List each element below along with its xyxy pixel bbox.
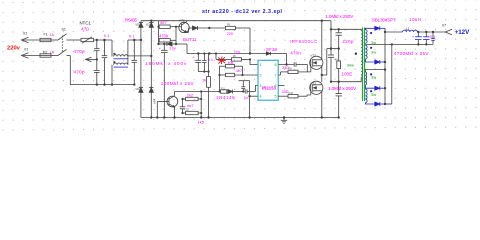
capacitor 4700Mkf second bbox=[420, 32, 429, 44]
svg-text:100E: 100E bbox=[342, 72, 353, 77]
diode SF28 bbox=[266, 47, 287, 64]
svg-text:3: 3 bbox=[260, 84, 262, 88]
node bbox=[330, 47, 332, 49]
node bbox=[163, 116, 165, 118]
svg-text:0.1: 0.1 bbox=[104, 33, 110, 38]
svg-text:0.1: 0.1 bbox=[129, 33, 135, 38]
bridge diode VD3 bbox=[135, 40, 143, 118]
node bbox=[215, 52, 217, 54]
resistor 1k vertical bbox=[202, 54, 210, 118]
svg-text:F1: F1 bbox=[44, 32, 48, 36]
capacitor 100Mkf x 25V bbox=[161, 54, 202, 87]
node bbox=[338, 47, 340, 49]
capacitor 470p lower bbox=[74, 59, 100, 84]
connector X1 top arrow bbox=[22, 37, 29, 43]
svg-text:IRF840GLC: IRF840GLC bbox=[290, 39, 317, 44]
node bbox=[207, 71, 209, 73]
connector X1 bottom arrow bbox=[22, 53, 29, 59]
capacitor 470n bootstrap bbox=[278, 51, 307, 86]
node bbox=[283, 116, 285, 118]
connector X7 bbox=[441, 24, 452, 35]
svg-text:5: 5 bbox=[275, 95, 277, 99]
wire VS jog bbox=[322, 49, 327, 75]
fuse F2 bbox=[40, 50, 58, 57]
wire bbox=[22, 39, 41, 41]
transistor VT4 protection bbox=[157, 92, 178, 118]
svg-text:R11: R11 bbox=[221, 87, 226, 90]
node bbox=[150, 116, 152, 118]
node bbox=[338, 28, 340, 30]
node bbox=[242, 90, 244, 92]
MOSFET VT3 bbox=[310, 81, 323, 117]
svg-text:4n7: 4n7 bbox=[187, 103, 194, 108]
wire caps bottom bbox=[198, 71, 208, 73]
node bbox=[200, 116, 202, 118]
transformer T1 primary winding bbox=[361, 31, 363, 78]
svg-text:100Mkf x 25V: 100Mkf x 25V bbox=[161, 81, 195, 86]
svg-text:220v: 220v bbox=[7, 46, 21, 52]
node bbox=[248, 95, 250, 97]
RC row upper bbox=[239, 81, 259, 97]
output gnd wire bbox=[392, 43, 433, 45]
svg-text:470p: 470p bbox=[74, 49, 85, 54]
svg-text:1: 1 bbox=[260, 63, 262, 67]
node bbox=[96, 39, 98, 41]
svg-text:S1: S1 bbox=[62, 28, 66, 32]
common-mode choke winding top bbox=[112, 40, 141, 59]
transformer primary phase dot bbox=[355, 53, 357, 55]
+310V rail bbox=[141, 20, 331, 22]
node bbox=[384, 103, 386, 105]
svg-text:2: 2 bbox=[260, 74, 262, 78]
node bbox=[330, 81, 332, 83]
common-mode choke winding bottom bbox=[112, 56, 151, 85]
node bbox=[140, 39, 142, 41]
wire +rail corner to primary top bbox=[331, 21, 361, 31]
capacitor 0.1 vcc bbox=[202, 54, 214, 72]
wire COM down bbox=[249, 96, 251, 117]
node VS bbox=[321, 74, 323, 76]
resistor 10k bbox=[220, 60, 243, 75]
node bbox=[181, 112, 183, 114]
svg-text:SF28: SF28 bbox=[266, 47, 278, 52]
node bbox=[330, 28, 332, 30]
node bbox=[150, 55, 152, 57]
node bbox=[321, 116, 323, 118]
svg-text:+12V: +12V bbox=[455, 29, 470, 36]
svg-text:4: 4 bbox=[260, 95, 262, 99]
svg-text:220p: 220p bbox=[342, 39, 354, 44]
capacitor 4n7 bbox=[183, 103, 202, 115]
svg-text:NTC1: NTC1 bbox=[80, 21, 92, 26]
node bbox=[417, 43, 419, 45]
svg-text:SBL3045PT: SBL3045PT bbox=[372, 18, 396, 23]
svg-text:1.0Mkf x 250V: 1.0Mkf x 250V bbox=[325, 14, 354, 19]
diode startup emitter bbox=[193, 26, 226, 30]
node: Y-cap midpoint bbox=[96, 58, 98, 60]
svg-text:1N4148: 1N4148 bbox=[216, 95, 235, 100]
svg-text:220: 220 bbox=[227, 32, 233, 36]
svg-text:VT1: VT1 bbox=[179, 19, 185, 23]
node bbox=[200, 98, 202, 100]
transformer secondary winding 2 bbox=[365, 45, 367, 59]
secondary tap 1 bbox=[364, 43, 366, 46]
node bbox=[203, 71, 205, 73]
node bbox=[203, 52, 205, 54]
capacitor between rows bbox=[180, 99, 186, 113]
svg-text:10uH: 10uH bbox=[409, 17, 421, 22]
resistor 4k7 startup bbox=[159, 20, 179, 29]
svg-text:4k7: 4k7 bbox=[160, 20, 168, 25]
ground bus vertical bbox=[391, 44, 393, 104]
svg-text:1k5: 1k5 bbox=[198, 119, 205, 124]
node bbox=[338, 81, 340, 83]
winding 3 phase dot bbox=[370, 73, 372, 75]
output wire bbox=[385, 31, 403, 33]
node bbox=[133, 39, 135, 41]
node bbox=[175, 43, 177, 45]
node bbox=[200, 90, 202, 92]
node bbox=[384, 68, 386, 70]
zener 13v bbox=[159, 42, 188, 54]
node bbox=[338, 116, 340, 118]
capacitor 0.1 output bbox=[430, 32, 436, 44]
svg-text:1A: 1A bbox=[50, 33, 55, 37]
svg-text:+: + bbox=[420, 35, 422, 39]
node bbox=[425, 31, 427, 33]
resistor 4k7 timing bbox=[220, 66, 259, 91]
node bbox=[321, 20, 323, 22]
resistor small on CT row bbox=[221, 90, 227, 93]
svg-text:VD4: VD4 bbox=[153, 98, 157, 104]
svg-text:4.7Ω: 4.7Ω bbox=[81, 27, 89, 32]
svg-text:3w: 3w bbox=[371, 50, 376, 55]
cathode bus bbox=[384, 28, 386, 104]
node bbox=[103, 83, 105, 85]
node bbox=[111, 83, 113, 85]
svg-text:4k7: 4k7 bbox=[236, 68, 243, 73]
transformer core bbox=[362, 28, 364, 102]
node bbox=[200, 112, 202, 114]
secondary tap 2 bbox=[365, 70, 385, 72]
node bbox=[218, 74, 220, 76]
transformer secondary winding 1 bbox=[365, 30, 367, 44]
bridge diode VD1 bbox=[135, 21, 143, 40]
node bbox=[241, 74, 243, 76]
base wire bbox=[156, 102, 158, 118]
capacitor 150Mkf x 400v bulk bbox=[145, 44, 187, 118]
node bbox=[249, 58, 251, 60]
node bbox=[391, 43, 393, 45]
svg-text:1n: 1n bbox=[244, 95, 248, 100]
node bbox=[103, 39, 105, 41]
winding 2 phase dot bbox=[370, 47, 372, 49]
wire to pin1 bbox=[250, 59, 258, 64]
resistor 100E snubber bbox=[337, 61, 352, 82]
svg-text:470n: 470n bbox=[290, 51, 301, 56]
switch S1 bbox=[58, 28, 81, 56]
capacitor 1.0Mkf bottom bbox=[336, 82, 342, 118]
node bbox=[384, 87, 386, 89]
grid dots bbox=[2, 0, 476, 131]
rectifier diode D3 bbox=[365, 85, 385, 90]
capacitor 220p snubber bbox=[336, 29, 354, 61]
diode 1N4148 bbox=[216, 90, 244, 100]
wire cap node bbox=[327, 48, 339, 50]
svg-text:2k2: 2k2 bbox=[187, 93, 194, 98]
svg-text:470p: 470p bbox=[74, 70, 85, 75]
rectifier diode D2 bbox=[365, 59, 385, 64]
svg-text:150Mkf x 400v: 150Mkf x 400v bbox=[145, 61, 187, 66]
transformer secondary winding 3 bbox=[365, 72, 366, 85]
winding 4 phase dot bbox=[370, 90, 372, 92]
svg-text:34w: 34w bbox=[347, 63, 354, 68]
transistor VT1 BUT11 bbox=[179, 19, 197, 43]
capacitor 470p upper bbox=[74, 40, 100, 59]
capacitor 1.0Mkf first bbox=[328, 29, 334, 81]
node bbox=[285, 63, 287, 65]
svg-text:6: 6 bbox=[275, 84, 277, 88]
rectifier diode D1 bbox=[365, 26, 385, 30]
IC U1 IR2153 bbox=[258, 60, 278, 100]
svg-text:R10: R10 bbox=[289, 92, 294, 95]
resistor 470k startup bbox=[159, 27, 177, 44]
svg-text:1.0Mkf x 250V: 1.0Mkf x 250V bbox=[328, 86, 357, 91]
resistor 33 gate low bbox=[278, 90, 311, 98]
node bbox=[175, 26, 177, 28]
svg-text:3w: 3w bbox=[371, 92, 376, 97]
sense column bbox=[200, 92, 202, 118]
earth arrow bbox=[86, 57, 97, 61]
svg-text:+: + bbox=[412, 35, 414, 39]
NTC1 thermistor bbox=[80, 21, 113, 44]
node bbox=[207, 116, 209, 118]
node bbox=[173, 116, 175, 118]
svg-text:8: 8 bbox=[275, 63, 277, 67]
transformer secondary winding 4 bbox=[365, 89, 367, 103]
node bbox=[417, 31, 419, 33]
wire primary bottom run bbox=[331, 77, 361, 81]
winding 1 phase dot bbox=[370, 32, 372, 34]
node bbox=[197, 52, 199, 54]
node bbox=[384, 31, 386, 33]
capacitor 0.1 first X-cap bbox=[102, 33, 110, 85]
node bbox=[181, 98, 183, 100]
wire CT row bbox=[175, 91, 221, 93]
node bbox=[384, 61, 386, 63]
capacitor 1n bbox=[244, 86, 258, 100]
fuse F1 bbox=[40, 32, 58, 41]
svg-text:7: 7 bbox=[275, 74, 277, 78]
svg-text:BUT11: BUT11 bbox=[183, 37, 197, 42]
node bbox=[157, 26, 159, 28]
capacitor 0.1 second X-cap bbox=[129, 33, 137, 84]
svg-text:str ac220 - dc12 ver 2.3.spl: str ac220 - dc12 ver 2.3.spl bbox=[202, 9, 283, 15]
capacitor 4700Mkf first bbox=[412, 32, 422, 44]
svg-text:RS405: RS405 bbox=[125, 17, 138, 22]
resistor 2k2 bbox=[183, 93, 202, 101]
svg-text:1k: 1k bbox=[202, 79, 206, 83]
red cross mark bbox=[218, 57, 226, 65]
resistor 220 second bbox=[216, 50, 250, 61]
resistor 220 first bbox=[225, 26, 250, 53]
node bbox=[208, 52, 210, 54]
svg-text:470k: 470k bbox=[159, 34, 169, 39]
wire N down bbox=[70, 56, 134, 85]
node bbox=[432, 31, 434, 33]
MOSFET VT2 bbox=[310, 21, 323, 83]
svg-text:220: 220 bbox=[234, 50, 240, 54]
wire bbox=[22, 55, 41, 57]
Vcc wire bbox=[187, 53, 267, 55]
minus rail bbox=[141, 117, 339, 119]
node bbox=[156, 116, 158, 118]
bridge diode VD4 bbox=[149, 56, 157, 118]
svg-text:X7: X7 bbox=[441, 24, 446, 28]
ground symbol bbox=[281, 118, 287, 124]
node bbox=[96, 83, 98, 85]
node bbox=[150, 20, 152, 22]
bridge diode VD2 bbox=[146, 21, 154, 56]
node bbox=[133, 83, 135, 85]
svg-text:X1: X1 bbox=[22, 32, 27, 36]
svg-text:13v: 13v bbox=[169, 46, 175, 51]
node bbox=[248, 116, 250, 118]
node bbox=[249, 52, 251, 54]
svg-text:X1: X1 bbox=[23, 47, 28, 51]
resistor 33 gate high bbox=[278, 66, 311, 75]
inductor L1 10uH bbox=[403, 17, 446, 32]
node bbox=[218, 90, 220, 92]
node bbox=[208, 27, 210, 29]
node bbox=[425, 43, 427, 45]
node bbox=[330, 47, 332, 49]
node bbox=[163, 43, 165, 45]
rectifier diode D4 bbox=[365, 102, 391, 106]
node bbox=[157, 43, 159, 45]
svg-text:4700Mkf x 25V: 4700Mkf x 25V bbox=[394, 51, 430, 56]
